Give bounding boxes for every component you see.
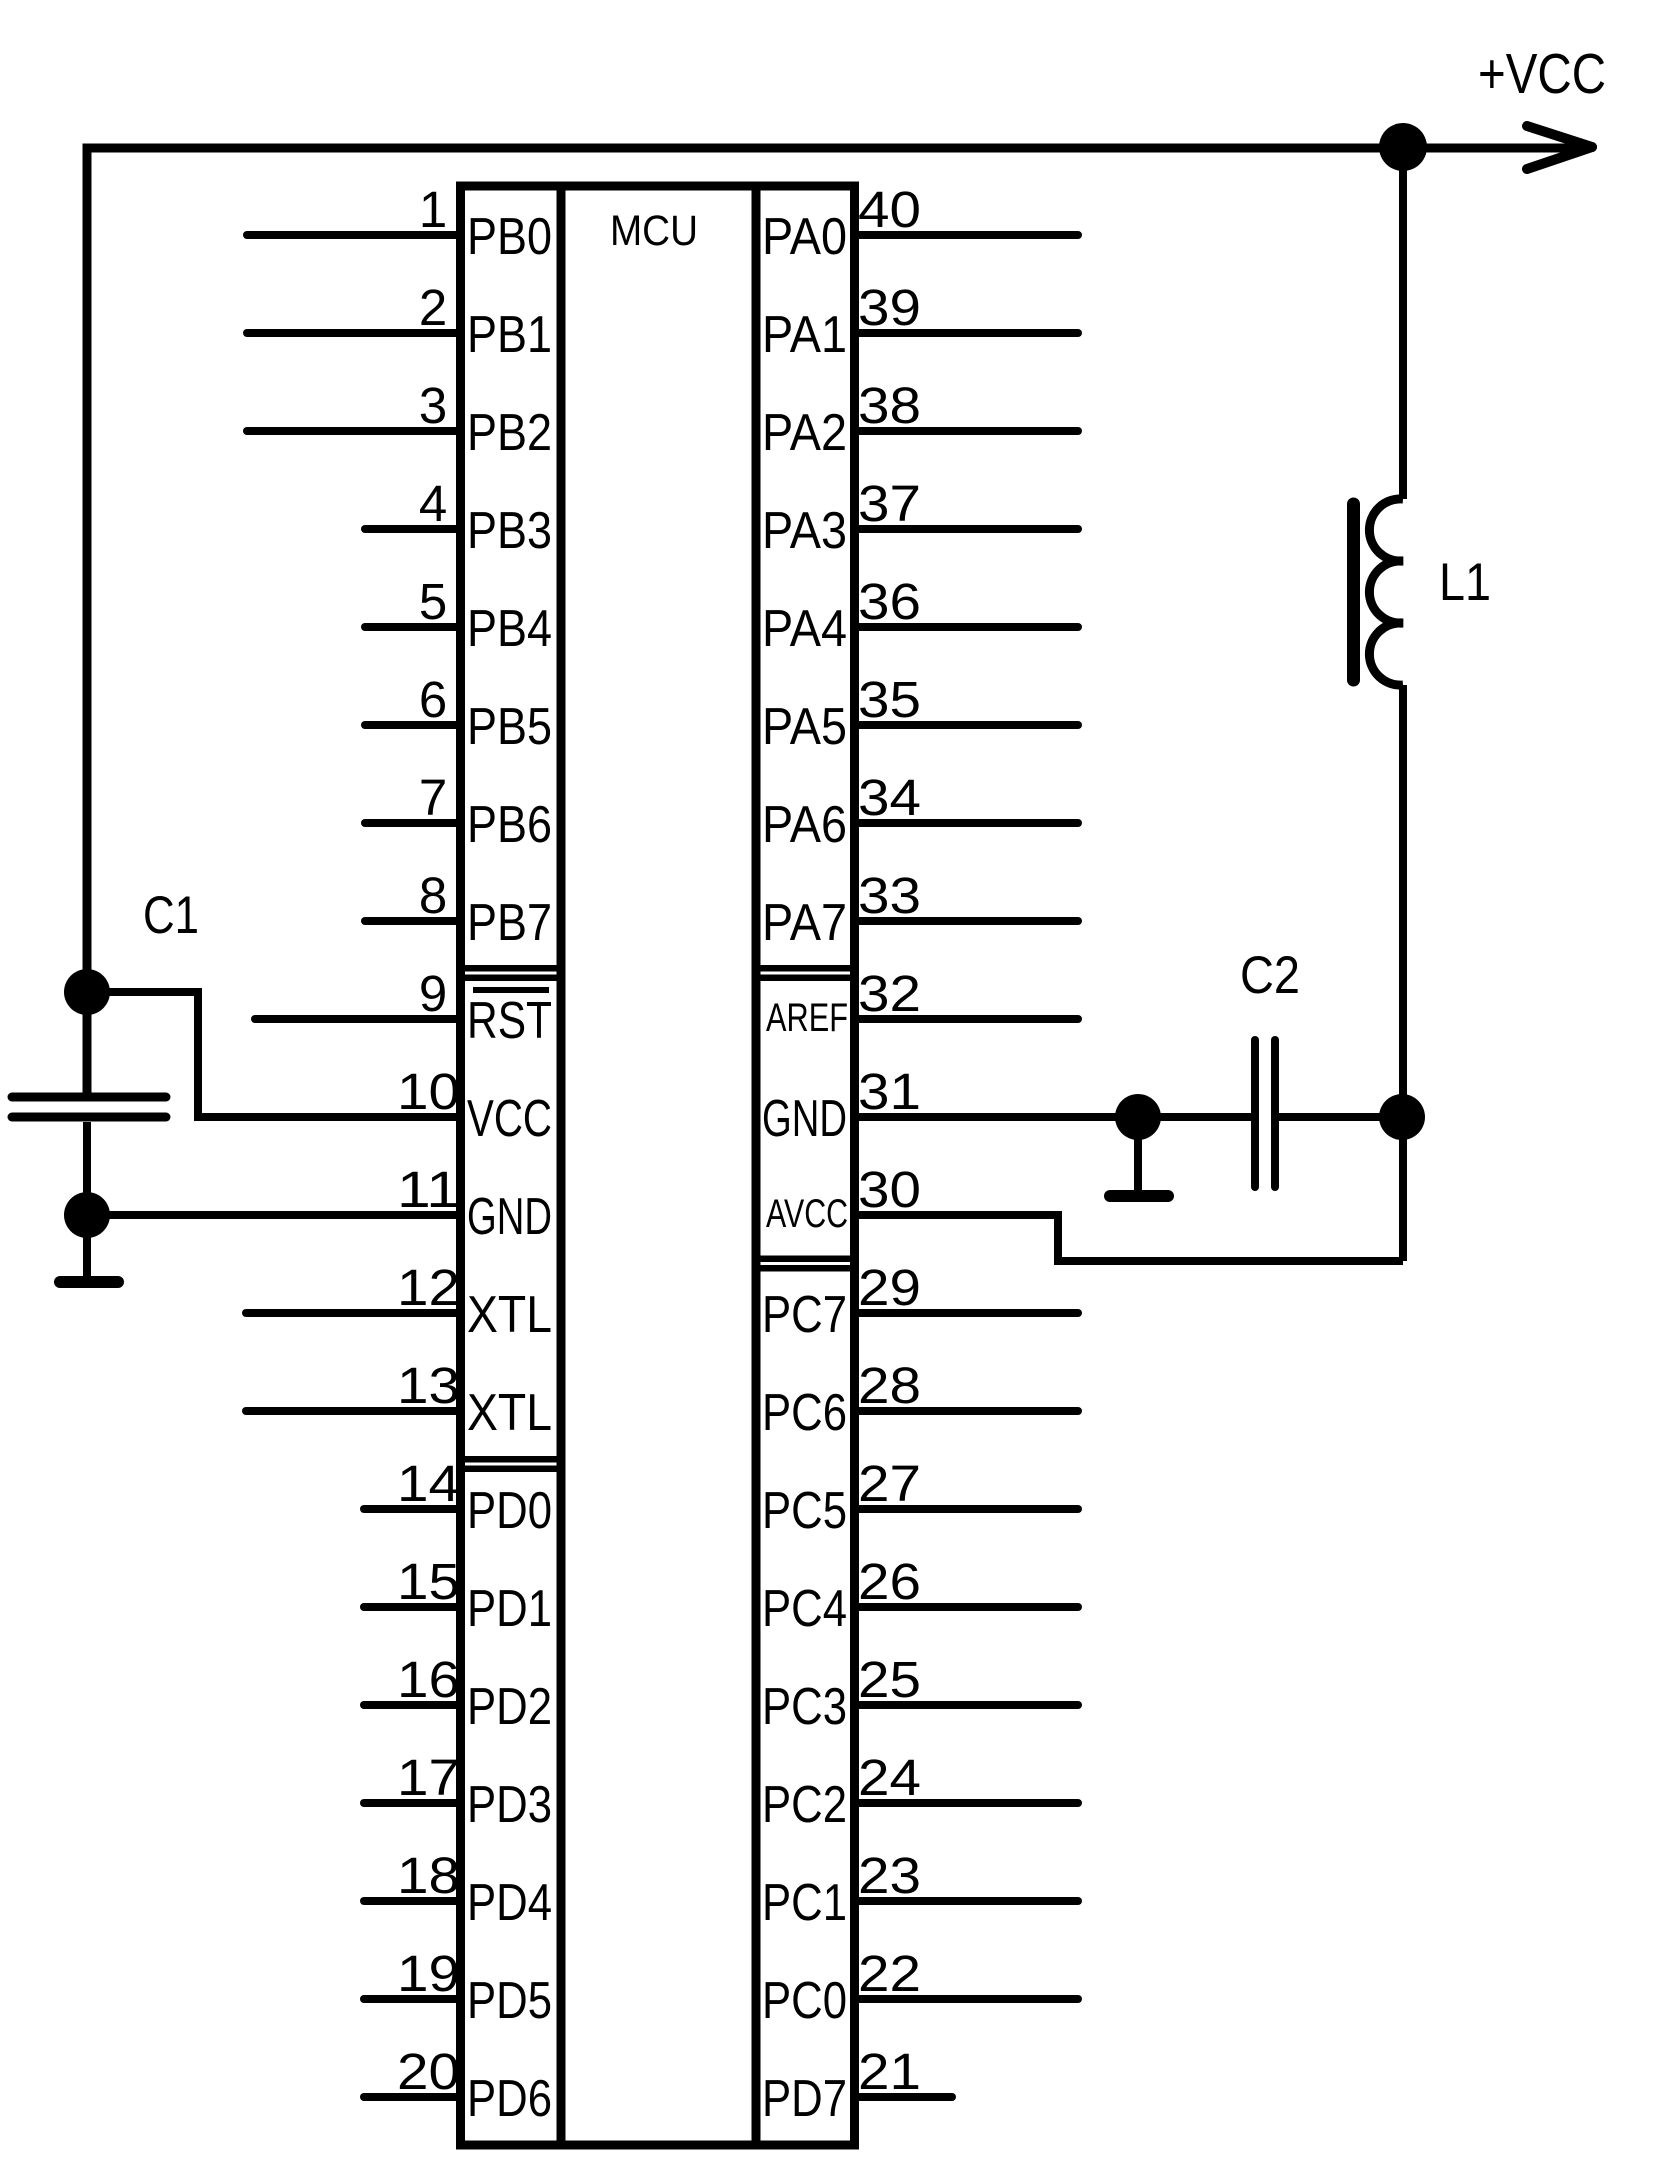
svg-text:+VCC: +VCC [1478, 42, 1606, 106]
svg-text:23: 23 [858, 1847, 921, 1904]
svg-text:11: 11 [397, 1161, 460, 1218]
svg-text:PC6: PC6 [762, 1384, 847, 1442]
svg-text:22: 22 [858, 1945, 921, 2002]
svg-text:15: 15 [397, 1553, 460, 1610]
svg-text:PA6: PA6 [762, 796, 847, 854]
svg-text:PB2: PB2 [467, 404, 552, 462]
svg-text:17: 17 [397, 1749, 460, 1806]
svg-text:PA1: PA1 [762, 306, 847, 364]
svg-text:6: 6 [419, 671, 447, 728]
svg-text:PC0: PC0 [762, 1972, 847, 2030]
svg-text:GND: GND [467, 1188, 552, 1246]
svg-text:19: 19 [397, 1945, 460, 2002]
svg-text:VCC: VCC [467, 1090, 552, 1148]
svg-text:2: 2 [419, 279, 447, 336]
svg-text:16: 16 [397, 1651, 460, 1708]
svg-text:PD2: PD2 [467, 1678, 552, 1736]
svg-text:10: 10 [397, 1063, 460, 1120]
svg-text:PA5: PA5 [762, 698, 847, 756]
svg-text:8: 8 [419, 867, 447, 924]
svg-text:33: 33 [858, 867, 921, 924]
svg-text:MCU: MCU [610, 207, 698, 255]
svg-text:PA3: PA3 [762, 502, 847, 560]
svg-text:PD3: PD3 [467, 1776, 552, 1834]
svg-text:L1: L1 [1439, 553, 1491, 612]
svg-text:31: 31 [858, 1063, 921, 1120]
svg-text:40: 40 [858, 181, 921, 238]
svg-text:PC5: PC5 [762, 1482, 847, 1540]
svg-text:27: 27 [858, 1455, 921, 1512]
svg-text:3: 3 [419, 377, 447, 434]
svg-text:AREF: AREF [766, 996, 848, 1040]
svg-text:PD1: PD1 [467, 1580, 552, 1638]
svg-text:39: 39 [858, 279, 921, 336]
svg-text:1: 1 [419, 181, 447, 238]
svg-text:PC3: PC3 [762, 1678, 847, 1736]
svg-text:9: 9 [419, 965, 447, 1022]
svg-text:PB1: PB1 [467, 306, 552, 364]
svg-text:PB6: PB6 [467, 796, 552, 854]
svg-text:35: 35 [858, 671, 921, 728]
svg-text:PB5: PB5 [467, 698, 552, 756]
svg-text:34: 34 [858, 769, 921, 826]
svg-text:24: 24 [858, 1749, 921, 1806]
svg-text:AVCC: AVCC [766, 1192, 848, 1236]
svg-text:PD4: PD4 [467, 1874, 552, 1932]
svg-text:RST: RST [467, 992, 552, 1050]
svg-text:PD6: PD6 [467, 2070, 552, 2128]
svg-text:PA2: PA2 [762, 404, 847, 462]
svg-text:PC1: PC1 [762, 1874, 847, 1932]
svg-text:PA7: PA7 [762, 894, 847, 952]
svg-text:26: 26 [858, 1553, 921, 1610]
svg-text:PB7: PB7 [467, 894, 552, 952]
svg-text:29: 29 [858, 1259, 921, 1316]
svg-text:21: 21 [858, 2043, 921, 2100]
svg-text:XTL: XTL [467, 1286, 552, 1344]
svg-text:5: 5 [419, 573, 447, 630]
svg-text:PC7: PC7 [762, 1286, 847, 1344]
svg-text:GND: GND [762, 1090, 847, 1148]
svg-text:PD7: PD7 [762, 2070, 847, 2128]
svg-text:XTL: XTL [467, 1384, 552, 1442]
svg-text:PB4: PB4 [467, 600, 552, 658]
svg-text:36: 36 [858, 573, 921, 630]
svg-text:12: 12 [397, 1259, 460, 1316]
svg-text:PC4: PC4 [762, 1580, 847, 1638]
svg-text:38: 38 [858, 377, 921, 434]
svg-text:PD0: PD0 [467, 1482, 552, 1540]
svg-text:PC2: PC2 [762, 1776, 847, 1834]
svg-text:28: 28 [858, 1357, 921, 1414]
svg-text:4: 4 [419, 475, 447, 532]
svg-text:PB0: PB0 [467, 208, 552, 266]
svg-text:25: 25 [858, 1651, 921, 1708]
svg-text:C2: C2 [1240, 946, 1300, 1005]
svg-text:37: 37 [858, 475, 921, 532]
svg-text:13: 13 [397, 1357, 460, 1414]
svg-text:7: 7 [419, 769, 447, 826]
svg-text:PA4: PA4 [762, 600, 847, 658]
svg-text:PB3: PB3 [467, 502, 552, 560]
svg-text:30: 30 [858, 1161, 921, 1218]
svg-text:C1: C1 [143, 886, 199, 945]
svg-text:14: 14 [397, 1455, 460, 1512]
svg-text:18: 18 [397, 1847, 460, 1904]
svg-text:PD5: PD5 [467, 1972, 552, 2030]
svg-text:32: 32 [858, 965, 921, 1022]
svg-text:20: 20 [397, 2043, 460, 2100]
svg-text:PA0: PA0 [762, 208, 847, 266]
